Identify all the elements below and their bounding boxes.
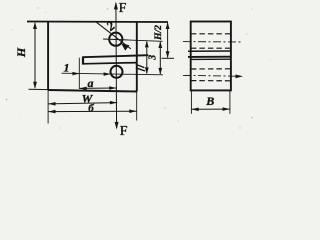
- W arrow left: [48, 102, 55, 106]
- a dimension left extension line: [78, 58, 80, 89]
- H bottom extension line: [29, 88, 49, 90]
- H/2 dimension line: [167, 23, 169, 57]
- slot top edge with right extension: [83, 55, 149, 57]
- slot bottom edge: [83, 63, 137, 64]
- svg-text:H/2: H/2: [154, 25, 164, 41]
- W arrow right: [110, 101, 117, 105]
- side view hidden line upper hole bottom: [191, 47, 231, 49]
- force F top arrowhead: [114, 2, 118, 10]
- svg-text:F: F: [119, 1, 127, 16]
- left extension below plate: [47, 90, 49, 124]
- b dimension line: [48, 110, 136, 112]
- lower horizontal centerline / leader 1 / right extension: [62, 73, 164, 75]
- plate front view: left edge: [47, 22, 49, 91]
- a dim arrow left: [80, 87, 87, 91]
- dimension H arrow up: [33, 22, 37, 29]
- svg-text:H: H: [14, 47, 28, 58]
- arrowhead at lower hole edge: [104, 72, 111, 76]
- svg-text:3: 3: [148, 55, 159, 61]
- upper hole horizontal centerline / right extension: [103, 39, 163, 41]
- side view axis lower hole with view arrow: [183, 74, 240, 77]
- leader line for label 2: [97, 22, 131, 49]
- side view hidden line lower hole top: [191, 68, 231, 70]
- outer right inner dimension line: [159, 42, 161, 74]
- force F bottom arrowhead: [115, 122, 119, 130]
- double slash mark at right edge: [136, 64, 145, 67]
- inner right dimension line (hole spacing): [146, 42, 148, 74]
- side view hidden line lower hole bottom: [191, 80, 231, 82]
- hole at slot end (lower): [111, 66, 123, 78]
- leader 1 arrowhead at slot: [72, 72, 79, 76]
- a dim arrow right: [109, 86, 116, 90]
- b arrow left: [48, 110, 55, 114]
- leader arrowhead at hole edge (lower right): [121, 43, 129, 50]
- H/2 bottom extension line: [162, 57, 175, 59]
- dimension H line: [34, 23, 36, 88]
- svg-text:F: F: [120, 124, 128, 136]
- side view slot line 2: [188, 56, 231, 58]
- dimension H arrow down: [33, 82, 37, 89]
- side view hidden line upper hole top: [191, 33, 231, 35]
- plate front view: bottom edge: [48, 90, 137, 92]
- B dimension line: [191, 108, 230, 110]
- scan speckles (decorative): [6, 7, 271, 128]
- svg-text:б: б: [88, 102, 94, 114]
- side view outline: [191, 22, 231, 91]
- hole 2 (upper): [109, 33, 122, 46]
- svg-text:B: B: [205, 94, 214, 108]
- svg-text:a: a: [88, 76, 94, 90]
- side view axis upper hole: [183, 41, 242, 43]
- b arrow right: [129, 109, 136, 113]
- W dimension line: [48, 103, 117, 104]
- force F centerline through holes: [115, 3, 118, 128]
- svg-text:1: 1: [64, 61, 70, 75]
- a dimension line: [79, 87, 116, 89]
- right extension below plate: [136, 92, 138, 121]
- plate front view: right edge: [136, 22, 138, 92]
- slot rounded left end: [82, 56, 84, 64]
- side view slot line 1: [188, 50, 231, 52]
- side view slot line 3: [191, 58, 231, 60]
- B extension lines: [190, 91, 192, 114]
- plate front view: top edge with extension: [27, 21, 168, 24]
